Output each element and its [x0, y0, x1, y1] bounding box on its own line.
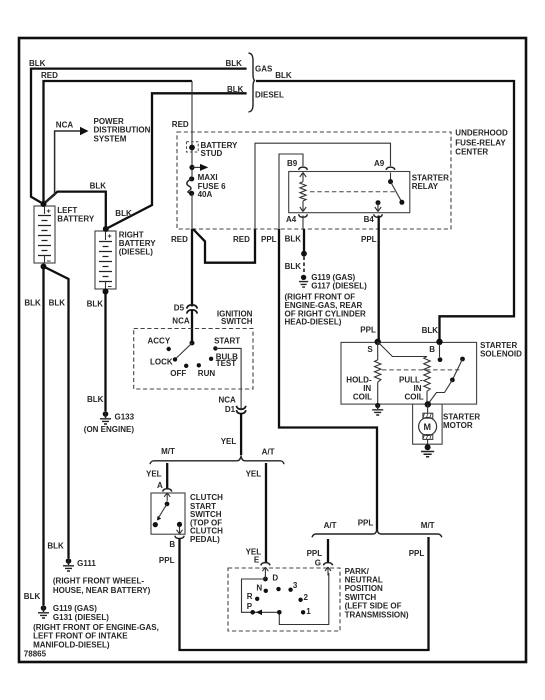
svg-text:HEAD-DIESEL): HEAD-DIESEL): [285, 318, 342, 327]
svg-text:A4: A4: [286, 215, 297, 224]
svg-text:PPL: PPL: [360, 326, 376, 335]
svg-text:YEL: YEL: [246, 470, 262, 479]
svg-text:BLK: BLK: [49, 299, 66, 308]
svg-text:PPL: PPL: [361, 235, 377, 244]
svg-text:A9: A9: [374, 159, 385, 168]
svg-text:MAXI: MAXI: [198, 173, 218, 182]
svg-text:UNDERHOOD: UNDERHOOD: [455, 129, 508, 138]
svg-text:A/T: A/T: [324, 521, 337, 530]
svg-text:POWER: POWER: [94, 117, 124, 126]
svg-text:78865: 78865: [24, 649, 47, 658]
svg-text:LEFT: LEFT: [57, 206, 77, 215]
svg-text:TEST: TEST: [216, 359, 237, 368]
svg-text:R: R: [247, 592, 253, 601]
svg-text:BATTERY: BATTERY: [57, 215, 95, 224]
svg-text:BLK: BLK: [226, 59, 243, 68]
svg-text:PPL: PPL: [409, 549, 425, 558]
svg-text:G133: G133: [115, 413, 135, 422]
svg-text:A: A: [157, 481, 163, 490]
svg-text:PEDAL): PEDAL): [190, 535, 220, 544]
svg-text:(DIESEL): (DIESEL): [119, 248, 154, 257]
svg-text:D: D: [272, 574, 278, 583]
svg-text:D1: D1: [225, 405, 236, 414]
svg-text:HOUSE, NEAR BATTERY): HOUSE, NEAR BATTERY): [53, 586, 151, 595]
svg-text:BLK: BLK: [227, 85, 244, 94]
svg-text:G111: G111: [77, 559, 96, 568]
svg-text:SWITCH: SWITCH: [221, 317, 253, 326]
svg-text:S: S: [367, 345, 373, 354]
svg-text:LEFT FRONT OF INTAKE: LEFT FRONT OF INTAKE: [33, 632, 128, 641]
svg-text:NCA: NCA: [172, 316, 190, 325]
svg-text:A/T: A/T: [262, 447, 275, 456]
svg-text:(LEFT SIDE OF: (LEFT SIDE OF: [345, 602, 402, 611]
svg-text:BLK: BLK: [24, 592, 41, 601]
svg-text:PPL: PPL: [261, 235, 277, 244]
svg-text:RED: RED: [171, 235, 188, 244]
svg-text:1: 1: [306, 607, 311, 616]
svg-text:PPL: PPL: [358, 518, 374, 527]
svg-text:YEL: YEL: [146, 470, 162, 479]
svg-text:G119 (GAS): G119 (GAS): [53, 604, 97, 613]
svg-text:NCA: NCA: [219, 395, 237, 404]
svg-text:ACCY: ACCY: [148, 337, 171, 346]
svg-text:M/T: M/T: [421, 521, 435, 530]
svg-text:STUD: STUD: [201, 149, 223, 158]
svg-text:PPL: PPL: [307, 549, 323, 558]
svg-text:3: 3: [293, 581, 298, 590]
svg-text:CLUTCH: CLUTCH: [190, 493, 223, 502]
svg-text:SWITCH: SWITCH: [345, 593, 377, 602]
svg-text:(RIGHT FRONT WHEEL-: (RIGHT FRONT WHEEL-: [53, 576, 144, 585]
svg-text:B9: B9: [287, 159, 298, 168]
svg-text:G117 (DIESEL): G117 (DIESEL): [311, 281, 367, 290]
svg-text:G: G: [315, 559, 321, 568]
svg-text:SOLENOID: SOLENOID: [480, 349, 522, 358]
svg-text:RED: RED: [233, 235, 250, 244]
svg-text:BLK: BLK: [422, 326, 439, 335]
svg-text:BLK: BLK: [285, 262, 302, 271]
svg-text:M: M: [424, 422, 432, 432]
svg-text:B: B: [429, 345, 435, 354]
svg-text:FUSE-RELAY: FUSE-RELAY: [455, 138, 506, 147]
svg-text:LOCK: LOCK: [150, 358, 173, 367]
svg-text:BLK: BLK: [29, 59, 46, 68]
svg-text:N: N: [256, 584, 262, 593]
svg-text:START: START: [214, 337, 240, 346]
svg-text:2: 2: [304, 593, 309, 602]
svg-text:D5: D5: [174, 304, 185, 313]
svg-text:GAS: GAS: [255, 65, 273, 74]
svg-text:B: B: [169, 540, 175, 549]
svg-text:COIL: COIL: [405, 392, 424, 401]
svg-text:E: E: [254, 556, 260, 565]
svg-text:BLK: BLK: [115, 209, 132, 218]
svg-text:DIESEL: DIESEL: [255, 91, 284, 100]
svg-text:MOTOR: MOTOR: [443, 421, 473, 430]
svg-text:G131 (DIESEL): G131 (DIESEL): [53, 613, 109, 622]
svg-text:YEL: YEL: [221, 437, 237, 446]
svg-text:RELAY: RELAY: [412, 182, 439, 191]
svg-text:B4: B4: [364, 215, 375, 224]
svg-text:RED: RED: [41, 71, 58, 80]
svg-text:BLK: BLK: [24, 299, 41, 308]
svg-text:(ON ENGINE): (ON ENGINE): [84, 425, 135, 434]
svg-text:NCA: NCA: [56, 121, 74, 130]
svg-text:M/T: M/T: [161, 447, 175, 456]
svg-text:NEUTRAL: NEUTRAL: [345, 575, 383, 584]
svg-text:BLK: BLK: [90, 182, 107, 191]
svg-text:CENTER: CENTER: [455, 148, 488, 157]
svg-text:COIL: COIL: [353, 392, 372, 401]
svg-text:RUN: RUN: [198, 369, 216, 378]
svg-text:MANIFOLD-DIESEL): MANIFOLD-DIESEL): [33, 640, 110, 649]
svg-text:(RIGHT FRONT OF ENGINE-GAS,: (RIGHT FRONT OF ENGINE-GAS,: [33, 623, 159, 632]
svg-text:P: P: [247, 602, 253, 611]
svg-text:RED: RED: [172, 120, 189, 129]
svg-text:BLK: BLK: [87, 299, 104, 308]
svg-text:TRANSMISSION): TRANSMISSION): [345, 610, 409, 619]
svg-text:SYSTEM: SYSTEM: [94, 134, 127, 143]
svg-text:BLK: BLK: [47, 542, 64, 551]
svg-text:BLK: BLK: [285, 234, 302, 243]
svg-text:BLK: BLK: [275, 71, 292, 80]
svg-text:PPL: PPL: [159, 556, 175, 565]
svg-text:40A: 40A: [198, 190, 213, 199]
svg-text:OFF: OFF: [170, 369, 186, 378]
svg-text:BLK: BLK: [87, 395, 104, 404]
